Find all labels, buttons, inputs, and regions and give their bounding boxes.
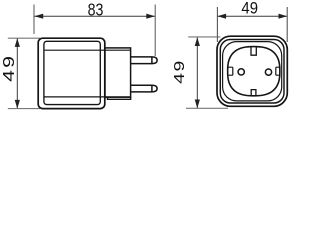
svg-text:83: 83 <box>88 0 104 20</box>
svg-text:49: 49 <box>0 54 18 82</box>
svg-text:49: 49 <box>241 0 258 18</box>
svg-text:49: 49 <box>171 59 188 84</box>
